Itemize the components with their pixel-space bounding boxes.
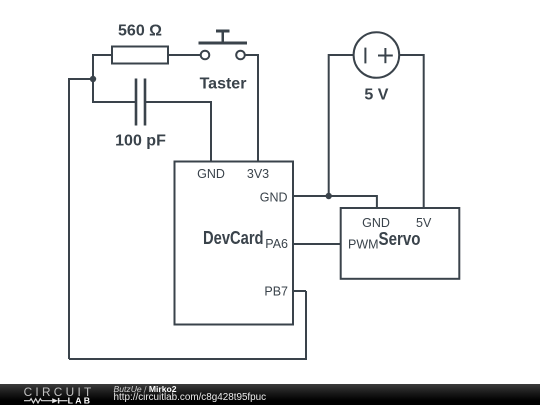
voltage source V1 [354,32,400,78]
svg-text:LAB: LAB [68,395,93,405]
resistor R1 body [112,47,168,64]
wire: DevCard PA6 pin to Servo PWM pin [293,243,341,245]
footer credit line 2 [114,392,267,403]
svg-text:DevCard: DevCard [203,228,264,248]
Servo box [341,208,460,279]
svg-text:100 pF: 100 pF [115,133,166,150]
wire: V1 left terminal down to node B [329,55,354,196]
svg-text:5 V: 5 V [364,87,388,104]
wire: node A to left rail [69,79,93,359]
wire: button right terminal to DevCard 3V3 pin [245,55,258,162]
capacitor C1 plates [136,79,145,126]
wire: V1 right terminal down to Servo 5V pin [399,55,424,208]
footer bar [0,384,540,405]
CircuitLab logo [0,384,110,405]
wire: bottom rail [69,291,306,359]
DevCard U1 box [175,162,294,325]
wire: PB7 pin stub [293,290,306,292]
svg-text:PA6: PA6 [265,237,288,251]
svg-text:GND: GND [260,191,288,205]
wire: node A down to capacitor C1 left plate [93,79,135,102]
svg-text:560 Ω: 560 Ω [118,23,162,40]
wire: DevCard GND right pin to node B and Servo GND pin [293,196,377,208]
svg-text:Servo: Servo [379,229,421,249]
pushbutton S1 Taster [199,31,248,59]
node A junction dot [90,76,96,82]
wire: resistor left lead down to node A [93,55,112,79]
footer credit line 1 [114,384,177,394]
svg-text:Taster: Taster [200,76,247,93]
svg-text:3V3: 3V3 [247,167,269,181]
node B junction dot [326,193,332,199]
wire: capacitor right plate to DevCard GND top pin [146,102,211,162]
svg-text:GND: GND [197,167,225,181]
svg-text:5V: 5V [416,216,432,230]
svg-text:PWM: PWM [348,238,379,252]
svg-text:GND: GND [362,216,390,230]
svg-text:PB7: PB7 [264,285,288,299]
wire: resistor right lead to button [168,54,201,56]
